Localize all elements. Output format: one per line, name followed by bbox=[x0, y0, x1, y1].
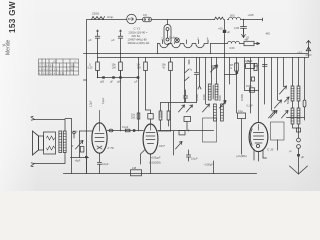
svg-text:1W: 1W bbox=[137, 66, 141, 70]
oscillator coil pair lower bbox=[214, 104, 224, 121]
trimmer arrow right low bbox=[269, 111, 276, 119]
resistor box on coupling line bbox=[122, 126, 130, 132]
svg-text:+6µF: +6µF bbox=[75, 159, 81, 163]
taps from heater chain to rail bbox=[158, 44, 225, 58]
svg-text:Amp.: Amp. bbox=[107, 15, 114, 19]
node +105V bbox=[243, 13, 263, 21]
fuse Si bbox=[143, 13, 152, 22]
svg-text:0,1µF: 0,1µF bbox=[122, 126, 129, 129]
line-cord resistor R 220ohm bbox=[92, 12, 105, 20]
cap label mid right bbox=[247, 105, 254, 108]
svg-text:5000: 5000 bbox=[287, 98, 290, 104]
vertical wires from rail right section bbox=[200, 58, 305, 123]
trimmer arrow right top bbox=[280, 86, 287, 94]
svg-text:Mende: Mende bbox=[6, 39, 12, 55]
svg-text:2W: 2W bbox=[112, 66, 116, 70]
svg-text:4,05: 4,05 bbox=[234, 26, 240, 30]
mains filter capacitor with + terminal bbox=[89, 30, 100, 54]
bias resistor box on bottom rail bbox=[131, 167, 142, 176]
svg-text:0,1µF: 0,1µF bbox=[247, 105, 254, 108]
mains filter capacitor with + terminal bbox=[112, 30, 123, 54]
oscillator coil pair upper bbox=[208, 84, 218, 100]
svg-text:V: V bbox=[74, 59, 76, 63]
svg-text:0,25: 0,25 bbox=[88, 66, 94, 70]
svg-text:220: 220 bbox=[71, 63, 76, 67]
wire bbox=[152, 19, 215, 21]
svg-text:CF7: CF7 bbox=[159, 144, 165, 148]
svg-text:DM: DM bbox=[247, 60, 251, 63]
label Amp bbox=[107, 15, 114, 19]
small component blob bbox=[252, 77, 255, 81]
svg-text:200: 200 bbox=[131, 116, 136, 119]
svg-text:10000: 10000 bbox=[240, 93, 244, 101]
svg-text:µF: µF bbox=[301, 156, 304, 159]
svg-text:5000: 5000 bbox=[218, 95, 222, 101]
dropper resistor R 10k/W bbox=[162, 58, 173, 132]
bypass capacitor 0.1uF under V1 bbox=[98, 162, 110, 174]
svg-text:0,1µF: 0,1µF bbox=[191, 157, 198, 161]
svg-text:-MS: -MS bbox=[265, 32, 270, 36]
bottom chassis rail bbox=[64, 173, 257, 175]
heater chain scalloped wire with taps bbox=[158, 36, 209, 47]
svg-text:DC: DC bbox=[54, 59, 58, 63]
dropper resistor R 10k/2W bbox=[112, 54, 123, 78]
right horizontal link bbox=[287, 117, 305, 119]
svg-text:µrrs(98s): µrrs(98s) bbox=[237, 155, 247, 158]
pilot lamp chain right bbox=[289, 124, 304, 166]
electrolytic cathode capacitor bbox=[75, 156, 88, 163]
label 0.05uF bottom bbox=[204, 161, 214, 174]
svg-text:µF: µF bbox=[135, 81, 138, 84]
chassis HT rail bbox=[98, 57, 308, 59]
electrolytic capacitor bbox=[117, 76, 122, 83]
electrolytic capacitor bbox=[135, 76, 140, 83]
rotated coil value labels bbox=[195, 93, 244, 101]
title maker Mende bbox=[6, 39, 12, 55]
svg-text:F 70: F 70 bbox=[108, 146, 114, 150]
resistor box on wire bbox=[235, 63, 239, 71]
value text under tube V2 bbox=[149, 157, 161, 165]
tube V1 cathode to bottom rail bbox=[99, 153, 101, 162]
voltage table bbox=[39, 59, 79, 75]
rectifier data text block CY1 bbox=[128, 27, 151, 45]
heater line choke 0.06 bbox=[228, 41, 240, 50]
capacitor mid bbox=[184, 90, 188, 102]
wire bbox=[104, 19, 127, 21]
svg-text:m: m bbox=[230, 67, 232, 70]
svg-text:0,1µF: 0,1µF bbox=[102, 162, 109, 166]
series resistor box on heater line bbox=[240, 38, 257, 45]
electrolytic cap on coupling line bbox=[133, 129, 135, 132]
wave band switch symbol bbox=[185, 58, 192, 103]
tuning trimmer arrow osc bbox=[203, 104, 210, 112]
resistor with label 1500 bbox=[245, 84, 259, 92]
title model number 153 GW bbox=[8, 1, 17, 33]
rotated label on bus bbox=[90, 100, 93, 107]
junction dots coupling line bbox=[120, 130, 140, 132]
electrolytic capacitor bbox=[100, 76, 105, 83]
bus stub bbox=[84, 79, 87, 81]
components right of tube V2 bbox=[159, 131, 186, 156]
resistor box on wire bbox=[245, 59, 258, 69]
svg-text:µ00: µ00 bbox=[100, 81, 105, 84]
svg-text:~0,05µF: ~0,05µF bbox=[204, 164, 214, 167]
antenna symbol top right bbox=[298, 41, 312, 58]
svg-text:0,1µ: 0,1µ bbox=[238, 110, 243, 113]
svg-text:≈0,1: ≈0,1 bbox=[298, 51, 304, 55]
tube V2 cathode wires bbox=[141, 150, 151, 174]
svg-text:4M: 4M bbox=[245, 38, 248, 41]
label -MS bbox=[265, 32, 270, 36]
coil pair lower stubs bbox=[293, 101, 299, 128]
svg-text:1+10(500): 1+10(500) bbox=[149, 162, 161, 165]
IF pentode tube V2 CF7 bbox=[143, 124, 165, 154]
trimmer arrow mid bbox=[220, 101, 227, 109]
coupling line tube V1 grid bbox=[107, 130, 143, 132]
svg-text:+100µµF: +100µµF bbox=[151, 157, 162, 160]
capacitor 4.05uF to chassis bbox=[234, 20, 247, 34]
feedback tap circle bbox=[73, 131, 76, 138]
arrow terminal Y5 bbox=[242, 29, 250, 40]
IF can lead down bbox=[277, 140, 279, 150]
svg-text:µF: µF bbox=[112, 39, 115, 42]
grid stopper label A60 bbox=[73, 130, 79, 134]
screen box right bbox=[184, 117, 191, 131]
output tube V3 CJ3 bbox=[249, 122, 274, 161]
rotated coil label right bbox=[287, 98, 290, 104]
small capacitor right bbox=[263, 65, 268, 67]
scale lamp bbox=[169, 36, 179, 43]
small trimmer left of IF can bbox=[285, 97, 290, 102]
wire bbox=[136, 19, 142, 21]
resistor small right bbox=[167, 111, 170, 120]
dial lamp / meter circle bbox=[127, 14, 137, 24]
svg-text:4 1 6 2 8 3 0 4 1 2 110: 4 1 6 2 8 3 0 4 1 2 110 bbox=[39, 71, 65, 75]
smoothing choke 500 bbox=[228, 14, 244, 20]
resistor box third bbox=[247, 60, 258, 70]
filter choke resistor on mains line bbox=[215, 17, 224, 19]
arrow terminal on wire 199 bbox=[198, 86, 201, 89]
volume potentiometer bbox=[76, 131, 84, 157]
value text under tube V3 bbox=[237, 155, 247, 158]
svg-text:124/57+84(L)-80: 124/57+84(L)-80 bbox=[128, 37, 148, 41]
grid resistor box above tube V3 bbox=[238, 110, 246, 154]
IF can outline right of tube V3 bbox=[271, 122, 285, 140]
coupling capacitor 0.1uF lower bbox=[187, 150, 199, 161]
arrow terminal end of heater line bbox=[257, 42, 260, 44]
heater supply rail bbox=[84, 53, 308, 55]
trimmer arrows detector bbox=[179, 105, 193, 112]
grid capacitor box above tube V2 bbox=[148, 114, 153, 125]
IF can outline left bbox=[203, 118, 217, 142]
electrolytic capacitor 60uF bbox=[218, 20, 230, 44]
svg-text:1,2µF: 1,2µF bbox=[90, 100, 93, 107]
wire bbox=[211, 43, 228, 45]
svg-text:C Y1: C Y1 bbox=[134, 27, 141, 31]
IF transformer coil pair right lower bbox=[291, 108, 300, 124]
IF transformer coil pair right upper bbox=[291, 86, 300, 101]
svg-text:153 GW: 153 GW bbox=[8, 1, 17, 33]
svg-text:220Ω: 220Ω bbox=[92, 12, 100, 16]
rotated value label bbox=[102, 97, 105, 104]
grid wire into tube V1 bbox=[80, 130, 93, 132]
svg-text:10000: 10000 bbox=[195, 93, 199, 101]
svg-text:Üm8au: Üm8au bbox=[169, 36, 178, 40]
svg-text:µF: µF bbox=[89, 39, 92, 42]
earth ground symbol bbox=[290, 166, 308, 174]
trimmer above tube V3 bbox=[271, 111, 278, 119]
svg-text:C 1 2 3 4 5 6: C 1 2 3 4 5 6 bbox=[39, 63, 54, 67]
dropper resistor R 1/0.25W bbox=[88, 54, 100, 78]
svg-text:µ00: µ00 bbox=[117, 81, 122, 84]
trimmer arrow right mid bbox=[275, 100, 282, 108]
mains input wire top bbox=[87, 19, 92, 21]
margin tick bbox=[3, 44, 6, 47]
svg-text:+105: +105 bbox=[248, 13, 255, 17]
speaker terminals bbox=[31, 116, 35, 166]
dark cap blob bbox=[236, 72, 239, 74]
electrolytic capacitor bbox=[110, 76, 115, 83]
output transformer windings bbox=[59, 131, 66, 153]
screen resistor small box bbox=[131, 113, 140, 119]
speaker wires bbox=[35, 119, 72, 174]
svg-text:1 150: 1 150 bbox=[67, 67, 74, 71]
svg-text:300/12+4,3(W)-111: 300/12+4,3(W)-111 bbox=[128, 41, 151, 45]
ceramic capacitor right edge bbox=[303, 100, 306, 120]
ballast tube (Urdox) bbox=[164, 20, 171, 45]
link wire y75 bbox=[225, 74, 237, 76]
output tube V1 F70 bbox=[92, 111, 114, 154]
junction dots on rail bbox=[97, 53, 211, 78]
loudspeaker bbox=[33, 131, 56, 155]
svg-text:0,8: 0,8 bbox=[143, 13, 147, 17]
coil former small left bbox=[159, 111, 162, 120]
svg-text:µF: µF bbox=[110, 81, 113, 84]
wire screen supply bbox=[138, 58, 140, 131]
padding capacitor labels WT m bbox=[230, 63, 234, 70]
main left bus wire bbox=[86, 20, 88, 173]
svg-text:145: 145 bbox=[132, 167, 137, 170]
svg-text:0,06: 0,06 bbox=[230, 46, 236, 50]
coupling capacitor with trimmer bbox=[211, 65, 218, 72]
AVC line right of tube V2 bbox=[158, 130, 214, 132]
trimmer arrow right low2 bbox=[282, 111, 289, 119]
pot wattage label bbox=[71, 145, 74, 148]
svg-text:500: 500 bbox=[230, 14, 235, 18]
svg-text:220/2+110/-90 ≈: 220/2+110/-90 ≈ bbox=[129, 30, 148, 34]
svg-text:+60: +60 bbox=[218, 27, 223, 31]
wire anode supply bbox=[120, 71, 122, 131]
detector circuit wires bbox=[161, 103, 197, 131]
capacitor small bbox=[191, 58, 199, 103]
svg-text:µF: µF bbox=[227, 30, 230, 34]
dropper resistor R 10/1W bbox=[137, 58, 151, 114]
svg-text:C J3: C J3 bbox=[267, 148, 274, 152]
svg-text:24V 5A: 24V 5A bbox=[132, 34, 141, 38]
svg-text:0,1µF: 0,1µF bbox=[102, 97, 105, 104]
cathode junction wires bbox=[71, 157, 89, 174]
electrolytic bus wire bbox=[98, 71, 139, 78]
svg-text:2 0 4 0 6 1 8 2 3: 2 0 4 0 6 1 8 2 3 bbox=[39, 67, 58, 71]
oval capacitor on coupling line bbox=[109, 129, 113, 132]
svg-text:1500: 1500 bbox=[246, 84, 252, 88]
